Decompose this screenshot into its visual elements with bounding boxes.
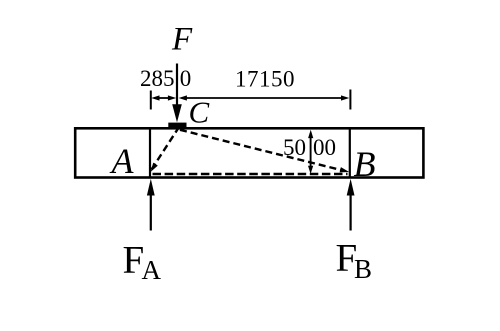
svg-text:A: A — [142, 255, 162, 285]
support line A — [149, 128, 151, 178]
dim tick right — [349, 90, 351, 110]
force F arrowhead — [172, 104, 182, 122]
svg-text:B: B — [354, 144, 376, 184]
dashed C-B diagonal — [180, 130, 345, 171]
beam rectangle — [75, 128, 423, 177]
svg-text:50: 50 — [283, 135, 306, 160]
dashed horizontal A-B — [153, 173, 348, 175]
svg-text:C: C — [189, 94, 210, 129]
svg-text:F: F — [171, 22, 193, 58]
pad at C — [168, 123, 186, 128]
svg-text:B: B — [354, 254, 372, 284]
svg-text:A: A — [110, 141, 135, 181]
force F line — [176, 64, 178, 109]
dim line 17150 — [184, 97, 344, 99]
svg-text:17150: 17150 — [235, 67, 295, 92]
dim line 2850 — [156, 97, 171, 99]
dim 5000 vertical line — [310, 133, 312, 170]
reaction arrow FA — [150, 192, 152, 231]
svg-text:285: 285 — [140, 66, 175, 91]
support line B — [349, 128, 351, 178]
dashed A-C diagonal — [152, 129, 179, 170]
reaction arrow FB — [350, 192, 352, 231]
dim tick left — [150, 91, 152, 110]
svg-text:0: 0 — [180, 66, 192, 91]
svg-text:00: 00 — [313, 135, 336, 160]
arrowhead at B — [340, 167, 350, 172]
arrowhead at A — [151, 163, 158, 172]
